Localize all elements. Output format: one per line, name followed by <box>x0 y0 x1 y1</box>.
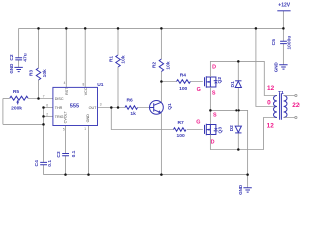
capacitor C3 <box>62 154 69 156</box>
ground below C5 <box>279 65 287 69</box>
svg-text:Q3: Q3 <box>218 127 224 134</box>
transformer T1 <box>274 96 277 118</box>
resistor R3 <box>36 68 40 80</box>
svg-text:S: S <box>212 91 216 97</box>
capacitor C4 <box>40 162 47 164</box>
svg-text:1000u: 1000u <box>287 36 293 50</box>
wire RST to bus <box>65 28 67 87</box>
wire VCC to bus <box>84 28 86 87</box>
wire THR/TRIG vertical to C4 <box>43 108 45 175</box>
svg-text:5: 5 <box>63 128 65 132</box>
transistor Q3 mosfet <box>205 124 216 135</box>
svg-text:555: 555 <box>70 103 79 109</box>
svg-text:C2: C2 <box>9 54 15 61</box>
svg-text:DISC: DISC <box>55 97 64 101</box>
wire Q3 drain down and across to transformer <box>210 118 277 150</box>
wire Q2 source to Q3 source <box>209 87 211 125</box>
resistor R6 <box>125 106 138 110</box>
svg-text:C4: C4 <box>34 160 40 167</box>
capacitor C2 <box>15 58 22 60</box>
svg-text:2: 2 <box>46 112 48 116</box>
ground below C2 <box>14 67 22 71</box>
svg-text:S: S <box>213 112 217 118</box>
R5 wiper arrow <box>17 101 19 104</box>
svg-text:D2: D2 <box>229 125 235 132</box>
wire bottom ground bus <box>44 174 248 176</box>
potentiometer R5 <box>10 96 28 100</box>
svg-text:D1: D1 <box>230 81 236 88</box>
svg-text:12: 12 <box>267 122 275 129</box>
svg-text:G: G <box>197 87 201 93</box>
diode D1 <box>237 61 239 110</box>
svg-text:Q1: Q1 <box>167 103 173 110</box>
transistor Q2 mosfet <box>205 76 216 87</box>
wire 555 GND pin to bottom bus <box>88 126 90 175</box>
resistor R2 <box>159 59 163 72</box>
ground bottom right <box>243 188 251 192</box>
svg-text:GND: GND <box>86 114 90 123</box>
svg-text:R5: R5 <box>13 89 20 95</box>
svg-text:4: 4 <box>64 81 66 85</box>
wire left drop <box>2 99 4 125</box>
wire DISC run pot to pin <box>28 98 53 100</box>
svg-text:OUT: OUT <box>89 106 98 110</box>
svg-text:+12V: +12V <box>278 2 290 8</box>
svg-text:R7: R7 <box>177 120 184 126</box>
svg-text:R1: R1 <box>108 56 114 63</box>
svg-text:GND: GND <box>9 63 14 74</box>
wire R3 branch bus to DISC <box>38 28 40 98</box>
svg-text:47u: 47u <box>23 53 29 61</box>
svg-text:GND: GND <box>274 62 279 73</box>
power +12V <box>277 10 290 12</box>
svg-text:1: 1 <box>84 127 86 131</box>
wire center tap from bus <box>256 28 277 106</box>
wire Q2 drain up and across to transformer <box>210 61 277 95</box>
resistor R1 <box>116 55 120 67</box>
svg-text:R6: R6 <box>126 97 133 103</box>
svg-text:CVOLT: CVOLT <box>64 111 68 124</box>
wire bottom-left run to THR/TRIG node <box>3 123 44 125</box>
wire top supply bus <box>19 27 284 29</box>
svg-text:T1: T1 <box>278 90 284 96</box>
svg-text:0.1: 0.1 <box>47 160 53 167</box>
wire pot left lead <box>3 98 10 100</box>
svg-text:200k: 200k <box>11 106 22 112</box>
svg-text:100: 100 <box>179 86 187 92</box>
svg-text:TRIG: TRIG <box>55 115 64 119</box>
svg-text:3: 3 <box>100 103 102 107</box>
wire +12V stem and C5 <box>282 11 284 65</box>
wire R2 branch bus to collector node <box>160 28 162 102</box>
svg-text:R4: R4 <box>180 72 187 78</box>
svg-text:12: 12 <box>267 85 275 92</box>
svg-text:C3: C3 <box>56 151 62 158</box>
svg-text:8: 8 <box>83 82 85 86</box>
svg-text:U1: U1 <box>97 82 104 88</box>
svg-text:10k: 10k <box>42 69 48 77</box>
transistor Q1 <box>150 101 164 115</box>
svg-text:7: 7 <box>43 94 45 98</box>
svg-text:RST: RST <box>65 87 69 95</box>
wire OUT branch down to R7 run <box>111 108 203 130</box>
svg-text:6: 6 <box>46 103 48 107</box>
junction dots <box>37 27 40 30</box>
resistor R7 <box>174 128 187 132</box>
wire TRIG stub <box>44 115 54 117</box>
svg-text:10k: 10k <box>120 55 126 63</box>
wire THR stub <box>44 107 54 109</box>
svg-text:D: D <box>211 140 215 146</box>
svg-text:C5: C5 <box>271 39 277 46</box>
wire R4 run collector node to Q2 gate <box>161 81 202 83</box>
svg-text:220: 220 <box>292 102 300 109</box>
svg-text:G: G <box>196 119 200 125</box>
op-amp U1 555 timer box <box>53 87 98 125</box>
svg-text:0: 0 <box>267 100 271 107</box>
diode D2 <box>237 110 239 149</box>
svg-text:10k: 10k <box>165 61 171 69</box>
resistor R4 <box>177 80 191 84</box>
svg-text:R3: R3 <box>29 70 35 77</box>
svg-text:0.1: 0.1 <box>71 150 77 157</box>
wire CVOLT to C3 <box>65 126 67 175</box>
wire source node to ground drop <box>210 110 247 187</box>
svg-text:R2: R2 <box>151 62 157 69</box>
wire OUT run <box>98 107 150 109</box>
capacitor C5 <box>280 41 287 43</box>
wire Q1 emitter to bottom bus <box>160 113 162 175</box>
svg-text:THR: THR <box>55 106 63 110</box>
wire C2 drop from bus <box>18 28 20 67</box>
svg-text:D: D <box>212 65 216 71</box>
svg-text:1k: 1k <box>130 111 136 117</box>
svg-text:Q2: Q2 <box>217 77 223 84</box>
wire R1 branch bus to OUT node <box>117 28 119 107</box>
wire secondary stubs <box>284 96 295 118</box>
svg-text:VCC: VCC <box>84 87 88 95</box>
svg-text:GND: GND <box>238 184 243 195</box>
svg-text:100: 100 <box>177 133 185 139</box>
